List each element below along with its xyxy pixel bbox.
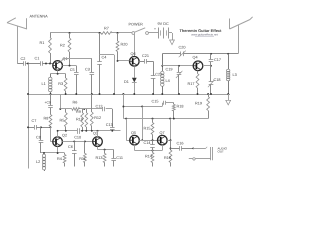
jack tip node	[192, 148, 194, 150]
jack sleeve terminal	[193, 158, 195, 160]
node bus-C4	[99, 32, 101, 34]
node rail2 left	[122, 106, 124, 108]
wire Q3 collector	[97, 131, 99, 137]
resistor R11	[79, 141, 86, 166]
node Q7 coll top	[169, 118, 171, 120]
node R2 bottom	[69, 65, 71, 67]
capacitor C2	[17, 57, 39, 66]
node rail x99.5	[99, 93, 101, 95]
svg-text:R18: R18	[177, 105, 184, 109]
wire Q5-Q7 node	[139, 140, 157, 142]
node emitter mid	[152, 150, 154, 152]
svg-text:R20: R20	[121, 43, 128, 47]
svg-text:Q6: Q6	[131, 52, 136, 56]
node C16 tap	[170, 147, 172, 149]
capacitor C20 (trimmer)	[162, 45, 238, 57]
node rail x134.3	[133, 93, 135, 95]
wire mid riser	[114, 55, 116, 94]
node rail x76.3	[75, 93, 77, 95]
resistor R18	[172, 103, 183, 119]
svg-text:R12: R12	[94, 116, 101, 120]
capacitor C10	[74, 128, 81, 139]
wire Q2-Q3 link	[62, 141, 92, 143]
svg-text:R1: R1	[40, 41, 45, 45]
node rail x228.2	[227, 93, 229, 95]
wire Q2 collector bus	[58, 130, 121, 132]
node L2 top	[43, 152, 45, 154]
transistor Q3	[93, 131, 103, 146]
node rail x50.5	[50, 93, 52, 95]
node bus-R20	[117, 32, 119, 34]
wire Q2 base	[51, 127, 53, 141]
wire Q7 right	[167, 140, 170, 142]
wire Q5 collector riser	[142, 107, 144, 141]
resistor R19	[195, 94, 210, 119]
node rail x123.4	[122, 93, 124, 95]
svg-text:C12: C12	[96, 104, 103, 108]
svg-text:L2: L2	[36, 160, 40, 164]
node C6 top	[73, 140, 75, 142]
battery B1 9V DC	[148, 22, 172, 39]
node R20 bottom	[117, 60, 119, 62]
resistor R17	[188, 71, 199, 94]
node coll-bus x86.3	[85, 130, 87, 132]
inductor L3	[227, 54, 237, 94]
wire jack tip	[193, 147, 207, 149]
svg-text:C11: C11	[116, 156, 123, 160]
svg-text:ANTENNA: ANTENNA	[30, 15, 49, 19]
svg-text:OUT: OUT	[218, 150, 225, 154]
svg-text:C10: C10	[74, 136, 81, 140]
wire emitter bus Q5Q7	[135, 150, 163, 152]
capacitor C22	[151, 61, 162, 94]
wire R2 bottom	[63, 65, 77, 67]
node coll-bus x112.3	[111, 130, 113, 132]
svg-text:R7: R7	[104, 27, 109, 31]
svg-text:R19: R19	[195, 101, 202, 105]
inductor L1	[42, 74, 53, 94]
svg-text:C5: C5	[70, 68, 75, 72]
diode D1	[124, 66, 137, 94]
svg-text:C4: C4	[102, 56, 107, 60]
switch POWER	[129, 23, 149, 35]
node Q1 emitter	[57, 73, 59, 75]
transistor Q6	[130, 52, 140, 66]
node coll-bus x65.8	[65, 130, 67, 132]
capacitor C14	[144, 140, 155, 150]
inductor L2	[36, 153, 46, 171]
node wireA left	[59, 108, 61, 110]
capacitor C11	[111, 150, 123, 167]
resistor R10	[76, 109, 88, 131]
svg-text:C6: C6	[68, 145, 73, 149]
wire Q7 emitter	[162, 145, 164, 150]
capacitor C6	[68, 141, 77, 166]
node rail-L3	[227, 53, 229, 55]
wire Q6 base	[118, 60, 130, 62]
node rail x114	[113, 93, 115, 95]
resistor R2	[60, 33, 71, 66]
svg-text:+C9: +C9	[45, 101, 51, 105]
svg-text:L3: L3	[233, 73, 237, 77]
resistor R13	[96, 150, 107, 167]
resistor R20	[116, 33, 127, 61]
transistor Q5	[130, 131, 140, 145]
resistor R5	[60, 109, 68, 131]
wire Q7 collector riser	[170, 119, 172, 141]
wire Q5 emitter	[134, 145, 136, 150]
svg-text:R8: R8	[44, 117, 49, 121]
svg-text:9V DC: 9V DC	[158, 22, 169, 26]
svg-text:R15: R15	[144, 127, 151, 131]
transistor Q2	[53, 134, 67, 147]
svg-text:D1: D1	[124, 80, 129, 84]
node C7 left	[27, 126, 29, 128]
svg-text:C17: C17	[214, 58, 221, 62]
node coll-bus x91.8	[91, 130, 93, 132]
resistor R16	[164, 140, 172, 166]
wire Q4 base	[162, 65, 193, 67]
wire mid rail	[28, 94, 230, 96]
svg-text:Q7: Q7	[160, 131, 165, 135]
node rail x197.5	[197, 93, 199, 95]
ground (mid rail)	[226, 94, 231, 105]
node wireA R9R10	[83, 108, 85, 110]
svg-text:C13: C13	[106, 123, 113, 127]
ground (battery)	[170, 33, 175, 45]
svg-text:C21: C21	[142, 54, 149, 58]
svg-text:R5: R5	[60, 119, 65, 123]
node Q2 base top	[50, 126, 52, 128]
capacitor C12	[96, 104, 105, 111]
svg-text:Q2: Q2	[62, 134, 67, 138]
wire C4 top	[100, 54, 115, 56]
svg-text:C3: C3	[85, 68, 90, 72]
svg-text:www.guitareffects.net: www.guitareffects.net	[191, 33, 218, 37]
resistor R9	[76, 109, 84, 131]
svg-text:Q4: Q4	[193, 56, 198, 60]
capacitor C5	[70, 66, 79, 94]
wire top bus	[50, 32, 132, 34]
capacitor C19 (trimmer)	[166, 66, 183, 94]
svg-text:C14: C14	[144, 141, 151, 145]
transistor Q4	[193, 56, 203, 71]
wire rail2 left riser	[123, 94, 125, 119]
transistor Q7	[158, 131, 168, 145]
svg-text:R4: R4	[57, 157, 62, 161]
node mid Q5Q7	[152, 139, 154, 141]
resistor R1	[40, 33, 52, 64]
node Q2 coll	[57, 130, 59, 132]
svg-text:R9: R9	[76, 110, 81, 114]
node Q5 coll	[141, 139, 143, 141]
inductor L4	[161, 54, 170, 94]
svg-text:R6: R6	[73, 101, 78, 105]
transistor Q1	[53, 57, 68, 70]
svg-text:L4: L4	[166, 79, 170, 83]
svg-text:C7: C7	[32, 119, 37, 123]
node base-R1	[49, 63, 51, 65]
svg-text:C16: C16	[177, 141, 184, 145]
jack contacts	[211, 147, 213, 160]
svg-text:+: +	[154, 27, 156, 31]
label ANTENNA	[30, 15, 49, 19]
svg-text:C15: C15	[152, 100, 159, 104]
capacitor C7	[28, 119, 51, 130]
subtitle url	[191, 33, 218, 37]
node Q4-C17	[210, 65, 212, 67]
node rail-C17	[210, 53, 212, 55]
node L4 tap	[161, 65, 163, 67]
node R18 bottom	[173, 118, 175, 120]
capacitor C8	[36, 127, 43, 153]
resistor R14	[145, 151, 154, 167]
svg-text:R10: R10	[76, 118, 83, 122]
wire rail2	[123, 106, 162, 108]
svg-text:R3: R3	[58, 82, 63, 86]
svg-text:C2: C2	[21, 57, 26, 61]
node rail x65.6	[65, 93, 67, 95]
resistor R3	[58, 74, 67, 94]
svg-text:C19: C19	[166, 68, 173, 72]
capacitor C3	[85, 58, 94, 94]
svg-text:C18: C18	[214, 78, 221, 82]
svg-text:Q5: Q5	[131, 131, 136, 135]
node base-C1	[45, 63, 47, 65]
svg-text:R14: R14	[145, 155, 152, 159]
node C8 top	[40, 126, 42, 128]
node coll-bus x97.5	[97, 130, 99, 132]
svg-text:R2: R2	[60, 44, 65, 48]
svg-text:C8: C8	[36, 136, 41, 140]
capacitor C18 (trimmer)	[208, 66, 221, 94]
svg-text:C20: C20	[179, 45, 186, 49]
capacitor C9	[45, 94, 53, 109]
svg-text:POWER: POWER	[129, 23, 144, 27]
resistor R7	[101, 27, 112, 35]
wire Q3 emitter	[98, 147, 114, 150]
node antenna tap	[27, 63, 29, 65]
node rail x208.1	[207, 93, 209, 95]
wire jack sleeve	[189, 158, 211, 160]
node rail x179	[178, 93, 180, 95]
svg-text:L1: L1	[42, 82, 46, 86]
node bus-R2	[69, 32, 71, 34]
capacitor C16	[171, 141, 194, 150]
node Q5 base top	[125, 118, 127, 120]
capacitor C21	[139, 54, 153, 64]
resistor R12 (on C3 riser)	[90, 94, 101, 131]
wire A riser	[60, 94, 62, 109]
title text	[180, 28, 223, 33]
wire Q1 collector	[61, 58, 92, 62]
capacitor C13	[106, 109, 115, 131]
node rail x162.3	[161, 93, 163, 95]
node Q2 emitter	[57, 152, 59, 154]
node C19 top	[178, 65, 180, 67]
svg-text:R17: R17	[188, 82, 195, 86]
node R11 top	[84, 140, 86, 142]
resistor R15	[144, 119, 154, 141]
wire A	[60, 108, 112, 110]
wire to Q5 base	[126, 140, 129, 142]
capacitor C1	[35, 57, 53, 66]
node coll-bus x82.2	[81, 130, 83, 132]
wire Q1 emitter	[50, 70, 65, 73]
svg-text:C1: C1	[35, 57, 40, 61]
node rail x211	[210, 93, 212, 95]
node R15 top	[152, 118, 154, 120]
node R13 top	[104, 149, 106, 151]
label AUDIO OUT	[218, 146, 228, 153]
svg-text:R13: R13	[96, 156, 103, 160]
wire antenna drop rail	[28, 64, 30, 169]
wire Q2 emitter	[57, 147, 59, 154]
node rail2-Q5coll	[141, 106, 143, 108]
node rail x153.1	[152, 93, 154, 95]
node rail x91.8	[91, 93, 93, 95]
wire y118.6	[123, 118, 208, 120]
node Q7 coll	[170, 139, 172, 141]
capacitor C4	[97, 33, 106, 94]
antenna A1 (volume antenna)	[7, 18, 27, 64]
node rail x28	[27, 93, 29, 95]
resistor R6	[72, 101, 80, 111]
svg-text:R11: R11	[79, 157, 86, 161]
capacitor C17	[209, 54, 221, 66]
resistor R8	[44, 109, 52, 128]
wire Q6 collector riser	[134, 34, 136, 56]
wire emitter bus Q2	[41, 152, 65, 154]
antenna A2 (pitch antenna)	[230, 17, 253, 54]
svg-text:R16: R16	[164, 156, 171, 160]
resistor R4	[57, 153, 66, 167]
wire Q5 base drop	[126, 119, 128, 141]
wire Q2 collector	[57, 131, 59, 137]
capacitor C15	[152, 100, 174, 107]
wire Q4 right	[203, 65, 211, 67]
